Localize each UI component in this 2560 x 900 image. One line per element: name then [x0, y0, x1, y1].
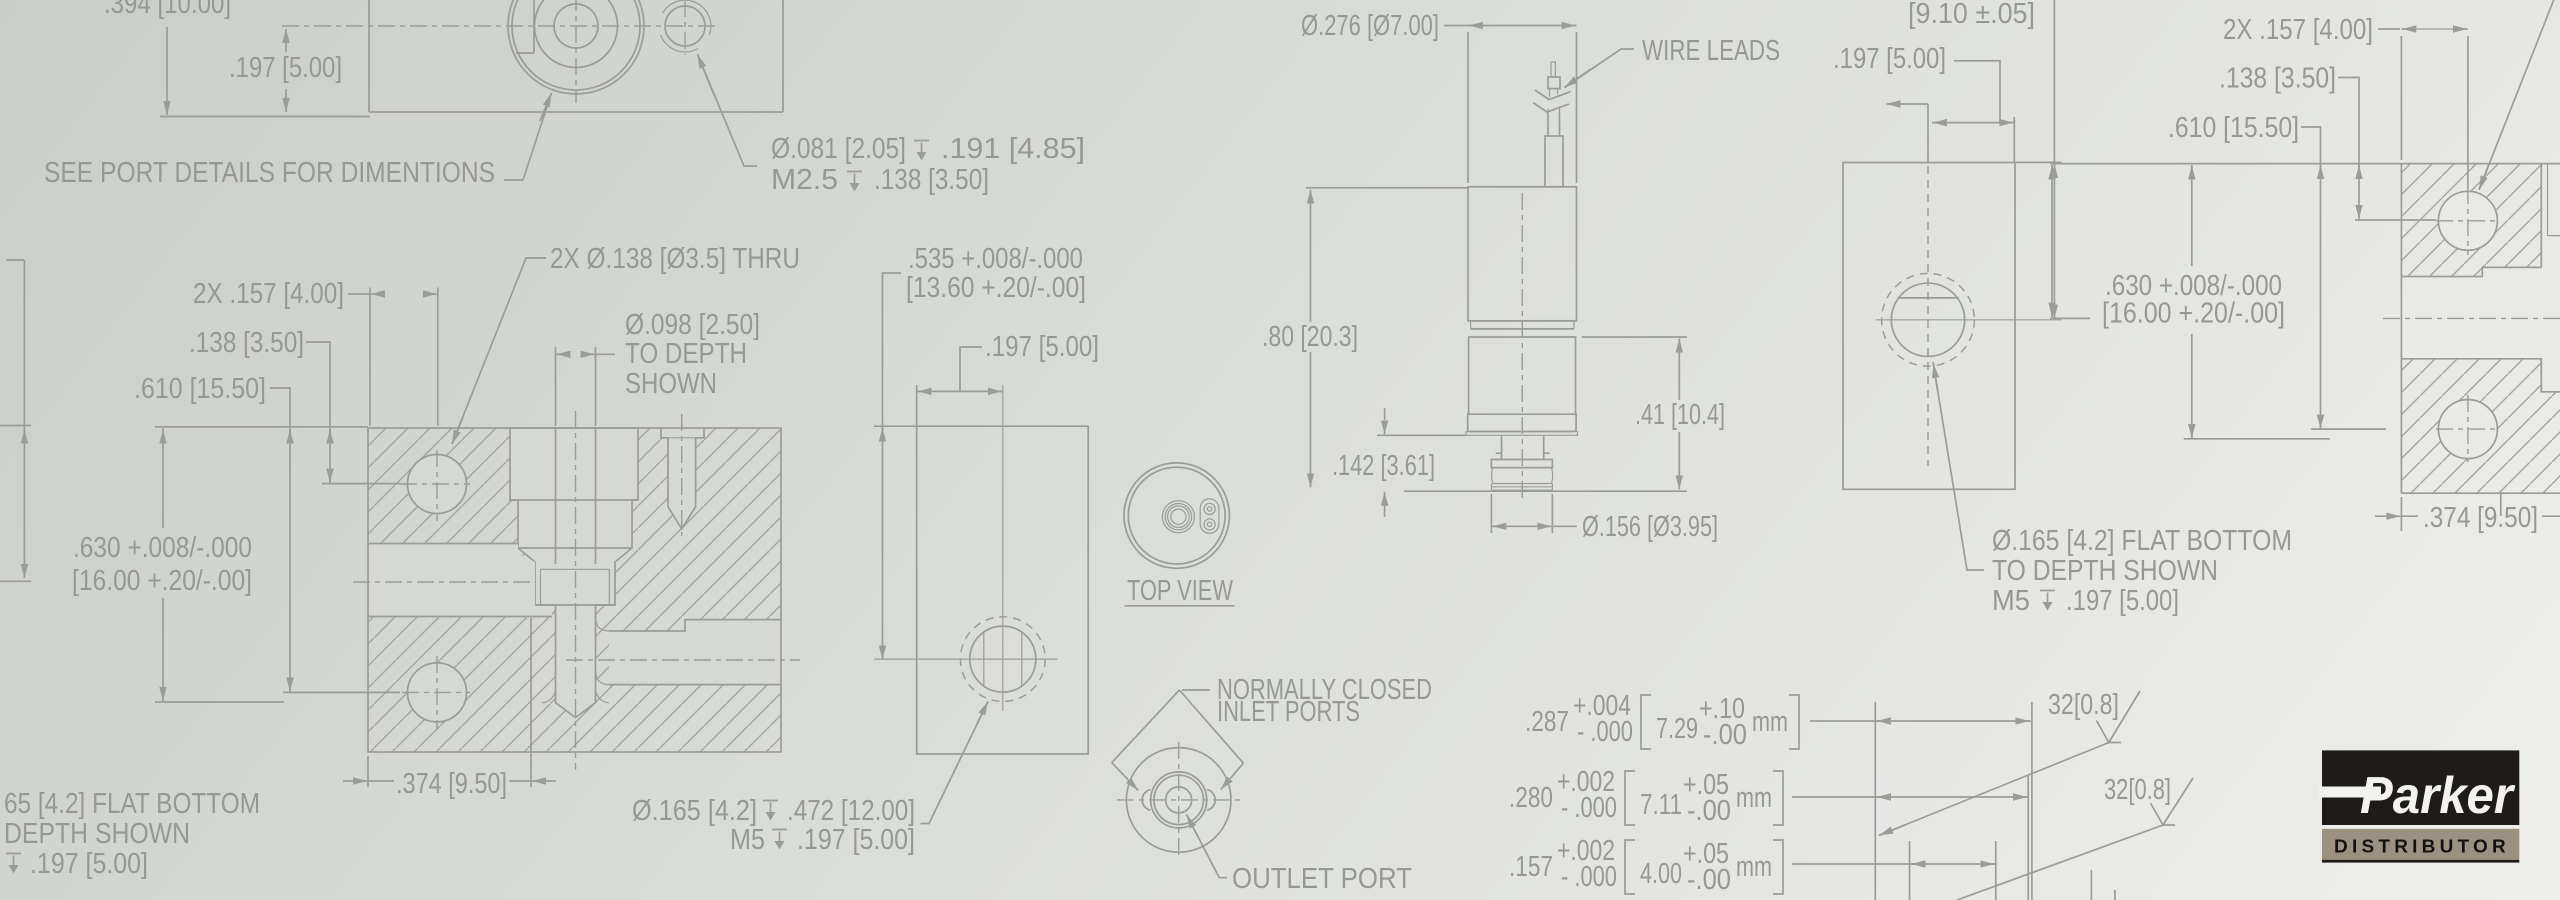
leader 2X 0.138 THRU right	[2479, 0, 2554, 190]
view E: outlet hole circle	[1166, 787, 1192, 813]
svg-text:.138 [3.50]: .138 [3.50]	[874, 164, 989, 196]
svg-text:2X Ø.138 [Ø3.5] THRU: 2X Ø.138 [Ø3.5] THRU	[550, 243, 800, 275]
view B: left flow channel	[368, 544, 552, 617]
view H: flow channel band	[2401, 164, 2560, 392]
view G: thread dashed circle	[1882, 273, 1975, 366]
view B: top hole centerlines	[436, 450, 438, 521]
svg-text:Ø.081 [2.05]: Ø.081 [2.05]	[771, 133, 906, 165]
view H: bottom mounting hole	[2438, 400, 2497, 459]
svg-text:TOP VIEW: TOP VIEW	[1127, 575, 1233, 607]
view E: port boss double circle	[1151, 772, 1207, 828]
view F: thin washer	[1466, 432, 1578, 436]
view E: right inlet ear	[1207, 790, 1215, 811]
svg-text:mm: mm	[1736, 782, 1772, 814]
svg-text:mm: mm	[1752, 706, 1788, 738]
dim .374 right lines	[2375, 515, 2400, 517]
svg-text:[13.60 +.20/-.00]: [13.60 +.20/-.00]	[906, 272, 1086, 304]
leader to M2.5 hole	[698, 55, 758, 167]
view D: connector stadium	[1200, 499, 1219, 533]
svg-text:mm: mm	[1736, 851, 1772, 883]
svg-text:Parker: Parker	[2360, 767, 2516, 825]
view F: wire lower connector	[1545, 136, 1563, 187]
view H: top mounting hole	[2438, 191, 2497, 250]
callout 0.165 flat bottom leader	[1933, 362, 1984, 570]
svg-text:.280: .280	[1509, 782, 1553, 814]
view C: side view rectangle	[917, 426, 1088, 754]
logo black box	[2322, 750, 2519, 825]
dim 0.098 small stem dimension	[555, 347, 557, 426]
view A: small hole vertical centerline	[684, 0, 686, 55]
view F: washer bands under coil	[1468, 321, 1577, 337]
svg-text:-.00: -.00	[1703, 719, 1747, 751]
svg-text:.374 [9.50]: .374 [9.50]	[2423, 502, 2538, 534]
label TOP VIEW underline	[1124, 605, 1234, 607]
view E: vertical centerline	[1178, 742, 1180, 858]
view B: left channel centerline	[353, 581, 536, 583]
view C: vertical centerline	[1002, 385, 1004, 711]
callout 0.165 depth leader	[921, 702, 989, 824]
label OUTLET PORT leader	[1187, 815, 1228, 878]
svg-text:WIRE LEADS: WIRE LEADS	[1642, 35, 1780, 67]
view F: wire break symbol	[1533, 90, 1571, 112]
view E: body circle	[1126, 748, 1231, 853]
view B: top mounting hole circle	[408, 455, 467, 514]
svg-text:2X .157 [4.00]: 2X .157 [4.00]	[2223, 14, 2373, 46]
view H: hatched block	[2401, 164, 2560, 494]
view B: central stepped bore cavity	[510, 428, 638, 718]
view D: connector pin circles	[1204, 503, 1215, 514]
view E: left inlet ear	[1142, 790, 1150, 811]
view G: thread chord	[1898, 297, 1959, 299]
svg-text:65 [4.2] FLAT BOTTOM: 65 [4.2] FLAT BOTTOM	[4, 788, 260, 820]
view D: center port rings	[1162, 501, 1194, 533]
svg-text:-.00: -.00	[1687, 864, 1731, 896]
view B: cartridge hex box	[541, 569, 610, 605]
dim .142 [3.61] lines	[1384, 408, 1386, 420]
view A: port inner circle	[554, 4, 598, 48]
dim row1 .287 bracket open	[1641, 695, 1651, 749]
svg-text:.41 [10.4]: .41 [10.4]	[1635, 399, 1725, 431]
view F: lower band	[1468, 414, 1576, 431]
svg-text:-.00: -.00	[1687, 795, 1731, 827]
svg-text:.197 [5.00]: .197 [5.00]	[985, 331, 1099, 363]
svg-text:SEE PORT DETAILS FOR DIMENTION: SEE PORT DETAILS FOR DIMENTIONS	[44, 157, 495, 189]
view G: side rectangle	[1843, 163, 2015, 490]
svg-text:7.11: 7.11	[1640, 789, 1682, 821]
svg-text:.138 [3.50]: .138 [3.50]	[2219, 63, 2336, 95]
logo white gap	[2322, 825, 2519, 829]
svg-text:.138 [3.50]: .138 [3.50]	[189, 327, 304, 359]
view B: right pilot drill hole	[661, 428, 704, 529]
svg-text:Ø.276 [Ø7.00]: Ø.276 [Ø7.00]	[1301, 10, 1439, 42]
svg-text:.197 [5.00]: .197 [5.00]	[1833, 43, 1946, 75]
svg-text:.142 [3.61]: .142 [3.61]	[1332, 450, 1435, 482]
svg-text:.197 [5.00]: .197 [5.00]	[2066, 585, 2179, 617]
dim .197 [5.00] C lines	[960, 347, 982, 391]
logo distributor bar	[2322, 829, 2519, 860]
svg-text:.287: .287	[1525, 706, 1569, 738]
view F: wire lower section	[1548, 113, 1560, 136]
svg-text:Ø.165 [4.2]: Ø.165 [4.2]	[632, 795, 757, 827]
dim .610 right lines	[2301, 127, 2321, 428]
svg-text:.197 [5.00]: .197 [5.00]	[229, 52, 342, 84]
dim .197 [5.00] G left pointer	[1927, 104, 1929, 163]
dim long bottom extension line	[1404, 490, 1687, 492]
dim .630 right lines	[2191, 165, 2193, 266]
svg-text:.80 [20.3]: .80 [20.3]	[1262, 321, 1358, 353]
view B: bore step lines	[510, 500, 638, 605]
dim row3 line	[1792, 863, 1996, 865]
dim .138 [3.50] left lines	[306, 342, 330, 482]
view E: diamond leader edges	[1112, 690, 1244, 763]
view F: neck	[1496, 435, 1550, 459]
view B: block outline	[368, 428, 781, 752]
view G: vertical dashed centerline	[1927, 138, 1929, 466]
svg-text:TO DEPTH SHOWN: TO DEPTH SHOWN	[1992, 555, 2218, 587]
view H: bottom hole centerlines	[2467, 395, 2469, 462]
view H: channel centerline	[2383, 317, 2560, 319]
svg-text:INLET PORTS: INLET PORTS	[1217, 696, 1360, 728]
dim row2 .280 bracket close	[1773, 771, 1783, 825]
dim row1 .287 bracket close	[1789, 695, 1799, 749]
svg-text:- .000: - .000	[1561, 861, 1617, 893]
logo Parker left dash	[2319, 787, 2381, 798]
view C: thread dashed circle	[960, 617, 1045, 702]
view H: top edge extension line	[2050, 163, 2401, 165]
view A: keyway notch on counterbore	[516, 0, 534, 53]
svg-text:.630 +.008/-.000: .630 +.008/-.000	[73, 532, 252, 564]
view A: small hole thread arcs	[663, 0, 711, 35]
dim .610 [15.50] left lines	[270, 388, 290, 691]
label WIRE LEADS leader	[1565, 49, 1635, 88]
view F: bottom lip	[1491, 484, 1552, 491]
svg-text:DISTRIBUTOR: DISTRIBUTOR	[2334, 837, 2510, 857]
dim row2 line	[1792, 796, 2029, 798]
svg-text:2X .157 [4.00]: 2X .157 [4.00]	[193, 278, 344, 310]
svg-text:Ø.098 [2.50]: Ø.098 [2.50]	[625, 309, 760, 341]
dim far-left partial vertical	[23, 260, 25, 577]
dim 0.276 lines	[1444, 25, 1577, 27]
svg-text:[16.00 +.20/-.00]: [16.00 +.20/-.00]	[72, 565, 252, 597]
view A: manifold top view body outline	[369, 0, 783, 112]
view G: horizontal centerline	[1876, 319, 2062, 321]
dim .80 [20.3] lines	[1310, 193, 1312, 322]
dim .41 [10.4] lines	[1678, 340, 1680, 400]
svg-text:M5: M5	[1992, 585, 2030, 617]
view A: small hole M2.5	[665, 6, 705, 46]
view C: threaded hole circle	[970, 626, 1036, 692]
svg-text:32[0.8]: 32[0.8]	[2104, 774, 2171, 806]
view B: pilot hole centerline	[681, 414, 683, 536]
svg-text:7.29: 7.29	[1656, 713, 1698, 745]
view F: centerline	[1521, 193, 1523, 499]
view B: drill point shoulder arcs	[542, 688, 609, 703]
svg-text:TO DEPTH: TO DEPTH	[625, 338, 747, 370]
label NORMALLY CLOSED text	[1182, 689, 1210, 691]
svg-text:SHOWN: SHOWN	[625, 368, 717, 400]
callout 2X 0.138 THRU leader	[452, 258, 546, 444]
view F: coil body	[1468, 187, 1577, 321]
dim .535 bracket and line	[883, 273, 902, 651]
dim row1 line	[1810, 720, 2031, 722]
svg-text:.197 [5.00]: .197 [5.00]	[30, 848, 148, 880]
svg-text:[16.00 +.20/-.00]: [16.00 +.20/-.00]	[2102, 298, 2285, 330]
dim partial left vertical	[2051, 165, 2053, 317]
svg-text:.610 [15.50]: .610 [15.50]	[134, 373, 266, 405]
svg-text:.191 [4.85]: .191 [4.85]	[941, 133, 1085, 165]
dim .197 [5.00] G lines	[1932, 122, 2014, 124]
view F: flange	[1491, 460, 1552, 468]
port detail extension lines below edge	[1875, 702, 2115, 900]
view B: right channel centerline	[566, 659, 800, 661]
view C: thread minor chords	[984, 633, 1022, 686]
dim 2X .157 [4.00] left lines	[348, 293, 370, 295]
dim .630 left lines	[162, 428, 164, 528]
svg-text:M5: M5	[730, 824, 765, 856]
svg-text:4.00: 4.00	[1640, 858, 1682, 890]
view E: horizontal centerline	[1117, 799, 1241, 801]
logo black underline	[2322, 860, 2519, 863]
view B: bore vertical centerline	[575, 411, 577, 770]
dim .394 [10.00] dimension line	[166, 27, 168, 115]
surface finish symbol 2 leader	[1957, 825, 2163, 900]
dim 9.10 lines	[2053, 0, 2055, 319]
svg-text:.472 [12.00]: .472 [12.00]	[787, 795, 915, 827]
dim .197 [5.00] A arrows	[285, 29, 287, 52]
svg-text:Ø.165 [4.2] FLAT BOTTOM: Ø.165 [4.2] FLAT BOTTOM	[1992, 525, 2292, 557]
dim row3 .157 bracket close	[1773, 840, 1783, 894]
svg-text:.197 [5.00]: .197 [5.00]	[797, 824, 915, 856]
svg-text:.394 [10.00]: .394 [10.00]	[104, 0, 231, 20]
svg-text:DEPTH SHOWN: DEPTH SHOWN	[4, 818, 190, 850]
svg-text:32[0.8]: 32[0.8]	[2048, 689, 2119, 721]
svg-text:.535 +.008/-.000: .535 +.008/-.000	[908, 243, 1083, 275]
dim .138 right lines	[2338, 78, 2359, 219]
view B: right flow channel	[609, 620, 781, 685]
svg-text:OUTLET PORT: OUTLET PORT	[1232, 863, 1412, 895]
view H: bore inner step lines	[2548, 164, 2560, 236]
note SEE PORT DETAILS leader	[504, 93, 552, 180]
svg-text:[9.10 ±.05]: [9.10 ±.05]	[1908, 0, 2035, 30]
view A: port middle circle	[535, 0, 618, 68]
svg-text:Ø.156 [Ø3.95]: Ø.156 [Ø3.95]	[1582, 511, 1718, 543]
svg-text:.374 [9.50]: .374 [9.50]	[396, 768, 507, 800]
surface finish symbol 1 leader	[1879, 743, 2109, 836]
view A: port counterbore outer double ring	[508, 0, 644, 94]
view B: channel fillet arcs at stem	[596, 618, 610, 685]
dim row3 .157 bracket open	[1625, 840, 1635, 894]
dim row2 .280 bracket open	[1625, 771, 1635, 825]
view B: inner bore hidden walls	[556, 428, 596, 564]
dim .197 [5.00] G bracket	[1954, 61, 2000, 123]
svg-text:M2.5: M2.5	[771, 164, 838, 196]
dim 2X .157 right lines	[2378, 28, 2400, 30]
surface finish symbol 2 check	[2151, 778, 2194, 825]
surface finish symbol 1 check	[2097, 691, 2141, 743]
view B: bottom mounting hole circle	[408, 663, 467, 722]
svg-text:.157: .157	[1509, 851, 1553, 883]
view F: wire top pin	[1551, 62, 1555, 77]
svg-text:.610 [15.50]: .610 [15.50]	[2168, 112, 2299, 144]
view A: dimension row line under body	[160, 116, 370, 118]
view A: horizontal centerline	[282, 25, 716, 27]
view H: block outline	[2401, 164, 2560, 494]
view B: bottom hole centerlines	[436, 656, 438, 729]
view A: big port vertical centerline	[575, 0, 577, 103]
view D: valve top view outer circles	[1124, 463, 1229, 568]
view G: tapped hole circle	[1891, 283, 1964, 356]
view B: top edge extension line	[155, 426, 368, 428]
dim 0.156 lines	[1490, 494, 1492, 533]
svg-text:- .000: - .000	[1577, 716, 1633, 748]
svg-text:- .000: - .000	[1561, 792, 1617, 824]
view B: hatched section block	[368, 428, 781, 752]
view C: horizontal centerline	[874, 658, 1058, 660]
view H: top hole centerlines	[2467, 187, 2469, 255]
view F: wire upper connector	[1548, 77, 1560, 89]
view F: lower body	[1469, 337, 1576, 414]
dim .374 [9.50] left lines	[530, 618, 532, 787]
view F: o-ring bulge	[1492, 468, 1553, 484]
